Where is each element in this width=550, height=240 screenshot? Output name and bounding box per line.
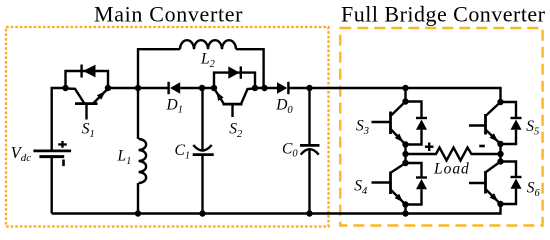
wire: bottom rail [52,204,501,214]
capacitor C0 curved plate [301,149,319,154]
switch S6: bar [484,171,487,194]
svg-text:Full Bridge Converter: Full Bridge Converter [341,2,546,27]
wire: left midpoint vertical [404,145,406,164]
switch S5: collector line [486,102,501,116]
switch S3: diode anode wire [406,130,422,145]
node: L1/L2 junction on rail [135,85,141,91]
inductor L2 coil [180,40,236,49]
battery Vdc [33,141,71,166]
node: right midpoint load tap [497,151,503,157]
capacitor C1 straight plate [193,153,214,156]
switch S3: gate lead [372,121,391,123]
svg-text:Vdc: Vdc [11,143,32,164]
switch S6: emitter line with arrow [486,190,501,205]
switch S3: diode triangle [416,120,427,130]
diode D0 cathode bar [287,82,289,94]
switch S2: base lead down [231,104,233,117]
switch S6: diode anode wire [501,189,517,204]
switch S5: gate lead [469,124,486,126]
wire: rail D1 to S2 [180,87,214,89]
switch S2: diode cathode bar [240,66,242,78]
switch S5: freewheel diode branch [501,102,517,118]
wire: battery positive to top rail [52,88,66,151]
switch S5: diode anode wire [501,130,517,144]
switch S3: collector line [391,102,406,116]
node: L2 right junction [261,85,267,91]
inductor L1 bottom wire [137,183,139,214]
node: right midpoint lower [497,158,503,164]
switch S1: emitter line with arrow [93,89,108,104]
switch S2: diode triangle [228,66,239,78]
svg-text:D1: D1 [166,96,183,115]
svg-text:L2: L2 [200,51,216,70]
switch S6: diode cathode bar [511,176,522,178]
switch S5: diode triangle [511,120,522,130]
wire: right midpoint vertical [499,144,501,162]
svg-text:Load: Load [433,161,469,178]
wire: rail S2 to D0 [255,87,277,89]
svg-text:S5: S5 [526,118,539,137]
capacitor C1 curved plate [193,145,211,151]
node: bottom rail junction left leg [402,210,408,216]
node: S5 collector junction [497,99,503,105]
node: C0 top junction [306,85,312,91]
switch S6: freewheel diode branch [501,162,517,178]
switch S1: base lead down [85,104,87,120]
switch S5: emitter line with arrow [486,130,501,144]
svg-text:S1: S1 [82,121,95,140]
switch S6: collector line [486,162,501,173]
switch S4: bar [389,172,392,195]
node: left midpoint load tap [402,151,408,157]
node: S6 emitter junction [497,201,503,207]
capacitor C0 top wire [308,88,310,145]
capacitor C0 bottom wire [308,150,310,213]
switch S5: bar [484,114,487,135]
svg-text:S2: S2 [229,121,243,140]
switch S6: diode triangle [511,179,522,189]
switch S3: diode cathode bar [416,117,427,119]
switch S4: emitter line with arrow [391,190,406,205]
switch S2: emitter line with arrow [215,89,225,104]
switch S3: bar [389,112,392,135]
switch S2: collector line [241,89,255,105]
svg-text:Main Converter: Main Converter [94,2,243,27]
inductor L1 top wire [137,88,139,139]
svg-text:C1: C1 [175,142,191,161]
label + (load polarity) [425,146,434,148]
switch S4: diode anode wire [406,189,422,204]
switch S3: freewheel diode branch [406,102,422,119]
diode D0 triangle [277,82,287,94]
switch S1: antiparallel diode loop [66,71,109,88]
switch S1: transistor base bar [75,102,98,105]
switch S1: diode triangle [83,65,96,78]
label - (load polarity) [479,145,485,148]
switch S5: diode cathode bar [511,117,522,119]
enclosure: Main Converter dotted box [6,27,329,227]
capacitor C0 straight plate [300,144,320,147]
node: S4 emitter junction [402,201,408,207]
svg-text:C0: C0 [282,140,298,159]
switch S4: freewheel diode branch [406,163,422,178]
capacitor C1 top wire [201,88,203,150]
switch S1: diode cathode bar [80,65,82,78]
inductor L2 loop wire right [236,49,264,88]
svg-text:S6: S6 [527,180,541,199]
inductor L2 loop wire left [138,49,180,88]
wire: rail D0 to full bridge top [288,88,500,102]
switch S3: emitter line with arrow [391,130,406,145]
diode D1 triangle [170,82,180,94]
svg-text:S3: S3 [356,118,369,137]
node: S2 emitter junction [211,85,217,91]
diode D1 cathode bar [167,82,169,94]
switch S4: diode triangle [416,179,427,189]
capacitor C1 bottom wire [201,155,203,214]
switch S4: gate lead [372,181,391,183]
wire: battery negative down to bottom rail [51,157,53,214]
switch S2: antiparallel diode loop [214,73,255,88]
switch S6: gate lead [469,182,486,184]
svg-text:L1: L1 [117,148,132,167]
svg-text:S4: S4 [354,178,368,197]
node: left midpoint lower [402,160,408,166]
wire: S4 emitter to bottom rail [404,205,406,214]
node: S1 emitter junction [105,85,111,91]
switch S2: transistor base bar [223,103,243,106]
wire: left leg top stub [404,88,406,102]
enclosure: Full Bridge Converter dashed box [340,28,542,226]
node: bridge top rail junction left leg [402,85,408,91]
switch S1: collector line [66,89,85,104]
node: C0 bottom rail junction [306,210,312,216]
switch S4: diode cathode bar [416,176,427,178]
node: S1 collector junction [62,85,68,91]
node: L1 bottom rail junction [135,210,141,216]
inductor L1 coil [139,139,147,183]
switch S4: collector line [391,163,406,173]
node: S2 collector junction [252,85,258,91]
wire: rail S1 to D1 [108,87,169,89]
node: S3 collector junction [402,98,408,104]
node: left midpoint upper [402,141,408,147]
resistor Load [406,148,501,161]
node: C1 bottom rail junction [199,210,205,216]
node: right midpoint upper [497,141,503,147]
node: rail junction left of S2 [199,85,205,91]
svg-text:D0: D0 [275,97,293,116]
